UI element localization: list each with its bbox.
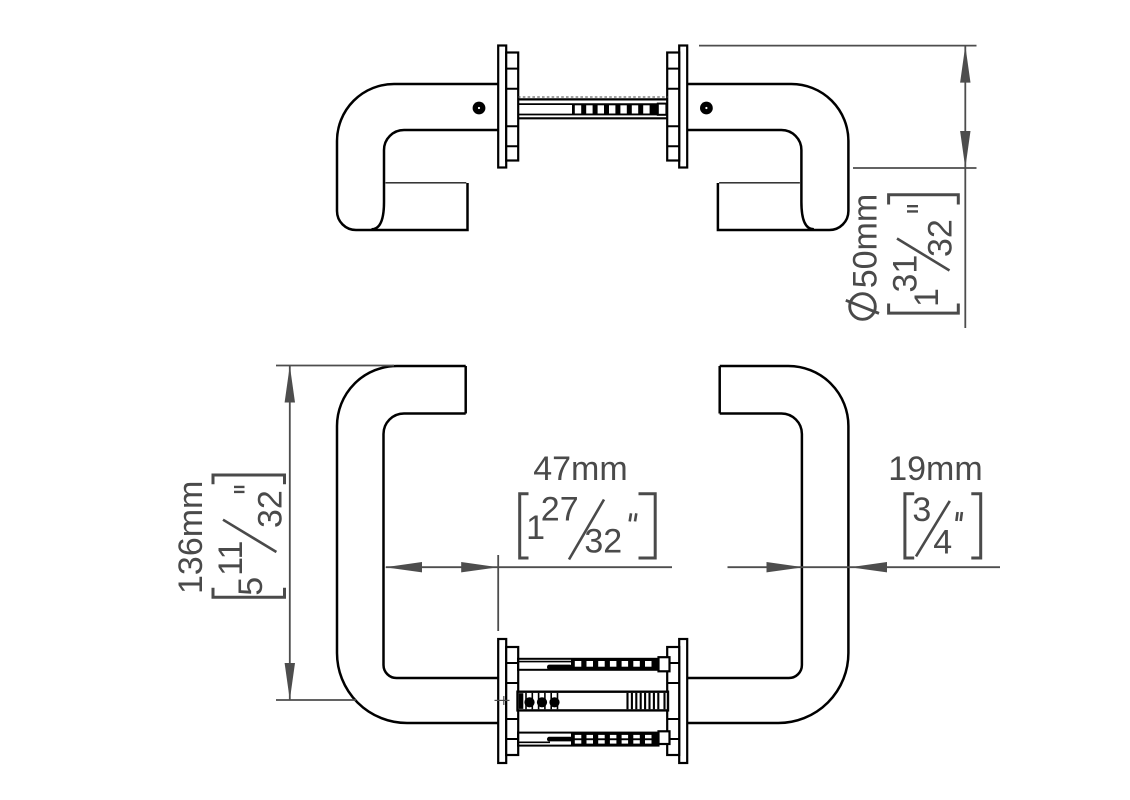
svg-text:19mm: 19mm (888, 450, 982, 488)
svg-text:31: 31 (887, 255, 925, 293)
dimension text "[1 31/32in]" (rotated) (887, 195, 960, 313)
left rosette (top view) (498, 46, 518, 168)
square spindle bar (bottom view) (518, 692, 669, 711)
right lever handle (front/bottom view), mirror of left (686, 366, 848, 723)
dimension 136mm: extension and dimension lines (left) (276, 366, 394, 701)
svg-text:32: 32 (251, 490, 289, 528)
right rosette (top view), mirror of left (667, 46, 687, 168)
right lever handle (top view), mirror of left (687, 84, 849, 230)
dimension text "[1 27/32in]" (520, 490, 656, 560)
left lever handle (top view) (337, 84, 499, 230)
dimension Ø50mm: extension lines and dimension line (top right) (699, 46, 977, 328)
dimension Ø50mm arrowheads (960, 46, 970, 168)
svg-text:47mm: 47mm (533, 450, 627, 488)
svg-text:11: 11 (212, 541, 250, 576)
svg-text:4: 4 (933, 524, 952, 562)
spindle between rosettes (top view) (518, 97, 668, 118)
svg-text:3: 3 (912, 491, 931, 529)
svg-text:50mm: 50mm (847, 194, 885, 288)
dimension text "Ø 50mm" (rotated): drawn diameter symbol + text (846, 294, 879, 320)
dimension text "[5 11/32in]" (rotated) (212, 475, 289, 597)
dimension 47mm: extension line, dimension line, arrowheads (386, 555, 672, 631)
svg-text:27: 27 (541, 490, 579, 528)
dimension text "[3/4in]" (905, 491, 981, 562)
dimension 19mm: dimension lines and arrowheads (728, 566, 1001, 568)
dimension 136mm arrowheads (285, 366, 295, 701)
svg-text:5: 5 (232, 577, 270, 596)
upper mounting screw (bottom view) (518, 657, 670, 671)
set screw dot on right handle neck (top view) (700, 102, 713, 115)
svg-text:136mm: 136mm (172, 481, 210, 594)
centerline of spindle axis (bottom view) (276, 699, 356, 701)
svg-text:32: 32 (922, 219, 960, 257)
svg-text:32: 32 (584, 523, 622, 561)
set screw dot on left handle neck (top view) (473, 102, 486, 115)
left lever handle (front/bottom view) (337, 366, 499, 723)
right rosette edge-on (bottom view), mirror of left (667, 639, 687, 763)
lower mounting screw (bottom view) (518, 731, 670, 745)
left rosette edge-on (bottom view) (498, 639, 518, 763)
